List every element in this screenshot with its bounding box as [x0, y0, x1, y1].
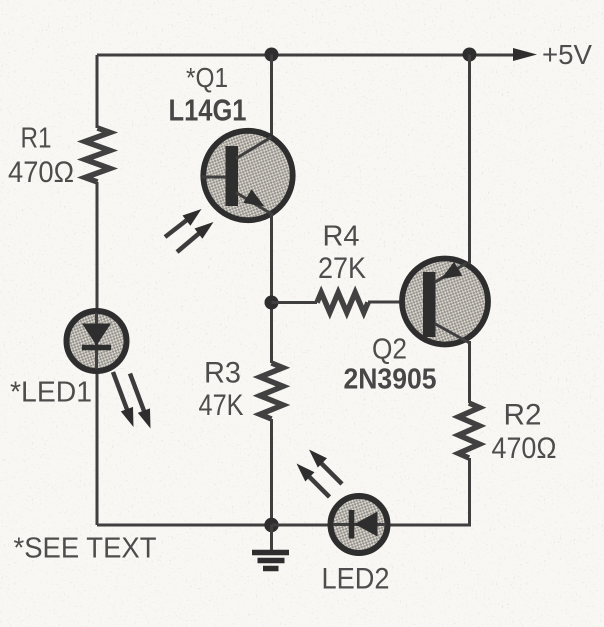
- svg-text:L14G1: L14G1: [169, 93, 247, 128]
- label R1: [21, 123, 52, 155]
- svg-text:470Ω: 470Ω: [8, 156, 74, 189]
- wire right emitter lead: [468, 55, 471, 265]
- wire R4 left lead: [272, 301, 318, 304]
- label R3: [204, 357, 241, 390]
- resistor R3: [260, 363, 283, 419]
- svg-text:R3: R3: [204, 357, 241, 390]
- wire center emitter to node: [270, 213, 273, 363]
- resistor R1: [85, 128, 110, 182]
- light arrows into Q1: [165, 209, 214, 252]
- svg-text:R2: R2: [504, 399, 542, 432]
- wire center collector lead: [270, 55, 273, 139]
- wire right bottom: [388, 458, 470, 525]
- label *LED1: [10, 377, 92, 409]
- label R4: [323, 221, 360, 253]
- svg-text:R4: R4: [323, 221, 360, 253]
- wire right collector to R2: [468, 341, 471, 403]
- svg-text:Q2: Q2: [372, 334, 407, 366]
- ground: [252, 525, 289, 569]
- svg-text:27K: 27K: [318, 252, 366, 285]
- label *Q1: [186, 62, 228, 93]
- wire R3 to ground node: [270, 419, 273, 525]
- svg-text:*SEE TEXT: *SEE TEXT: [14, 533, 157, 565]
- label LED2: [322, 563, 390, 596]
- node top right: [463, 48, 477, 62]
- +5V supply arrow: [513, 48, 537, 61]
- label 27K: [318, 252, 366, 285]
- label L14G1: [169, 93, 247, 128]
- resistor R2: [459, 403, 480, 458]
- label R2: [504, 399, 542, 432]
- svg-text:+5V: +5V: [542, 39, 592, 70]
- node top center: [265, 48, 279, 62]
- svg-text:470Ω: 470Ω: [492, 432, 557, 465]
- label 470ohm R1: [8, 156, 74, 189]
- transistor Q2: [402, 259, 488, 345]
- svg-text:*Q1: *Q1: [186, 62, 228, 93]
- svg-text:47K: 47K: [199, 389, 244, 422]
- LED LED2: [331, 496, 388, 553]
- label Q2: [372, 334, 407, 366]
- light arrows out of LED1: [113, 372, 151, 429]
- phototransistor Q1: [202, 131, 293, 220]
- LED LED1: [67, 311, 127, 371]
- svg-text:R1: R1: [21, 123, 52, 155]
- label 470ohm R2: [492, 432, 557, 465]
- label *SEE TEXT: [14, 533, 157, 565]
- node R4/R3 junction: [265, 296, 279, 310]
- svg-text:2N3905: 2N3905: [344, 364, 437, 396]
- light arrows out of LED2: [297, 450, 343, 498]
- wire bottom center: [272, 524, 333, 527]
- wire bottom left: [97, 524, 272, 527]
- label 47K: [199, 389, 244, 422]
- label +5V: [542, 39, 592, 70]
- svg-text:*LED1: *LED1: [10, 377, 92, 409]
- wire R4 right lead / Q2 base: [368, 301, 424, 304]
- wire top rail: [97, 54, 517, 57]
- wire left vertical: [96, 55, 99, 525]
- node ground junction: [264, 518, 278, 532]
- svg-text:LED2: LED2: [322, 563, 390, 596]
- resistor R4: [317, 293, 368, 313]
- label 2N3905: [344, 364, 437, 396]
